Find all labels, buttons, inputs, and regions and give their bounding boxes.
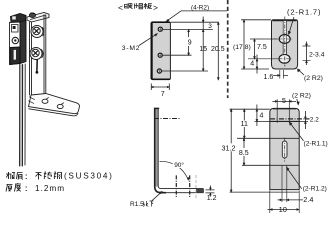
svg-text:(2-R1.2): (2-R1.2) [303,186,327,193]
svg-text:20.5: 20.5 [211,46,225,53]
svg-text:9: 9 [188,39,192,46]
svg-text:3-M2: 3-M2 [122,45,141,52]
svg-text:3: 3 [208,23,212,30]
svg-text:2-3.4: 2-3.4 [309,51,325,58]
svg-text:15: 15 [199,46,207,53]
svg-text:10: 10 [279,205,287,214]
svg-text:2.4: 2.4 [303,195,313,204]
svg-text:7: 7 [161,91,165,98]
svg-text:(17.8): (17.8) [233,44,251,51]
svg-text:4: 4 [260,112,264,119]
svg-text:1.2: 1.2 [207,195,217,202]
svg-text:31.2: 31.2 [222,144,236,153]
svg-text:4: 4 [250,60,254,67]
svg-text:5: 5 [282,98,286,105]
svg-text:11: 11 [241,121,248,128]
svg-text:R1.5: R1.5 [130,201,144,208]
svg-text:1.2mm: 1.2mm [35,184,65,193]
svg-text:(2 R2): (2 R2) [292,93,311,100]
svg-text:(SUS304): (SUS304) [64,172,114,181]
svg-text:(2-R1.7): (2-R1.7) [287,8,321,17]
svg-text:7.5: 7.5 [257,44,267,51]
svg-text:(2-R1.1): (2-R1.1) [304,141,328,148]
svg-text:1.6: 1.6 [264,74,274,81]
svg-text:2.2: 2.2 [310,116,319,123]
svg-text:90°: 90° [174,161,184,169]
svg-text:8.5: 8.5 [239,150,249,157]
svg-text:<: < [118,3,123,13]
svg-text:>: > [153,3,158,13]
svg-text:(2 R2): (2 R2) [304,75,323,82]
svg-text:(4-R2): (4-R2) [191,5,209,12]
